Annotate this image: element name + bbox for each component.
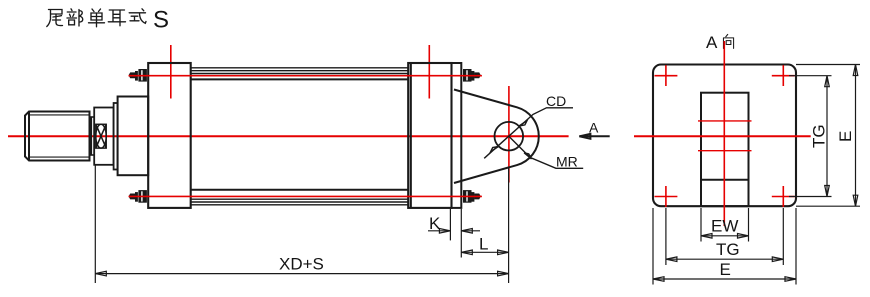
char shi 式 [129,9,146,23]
rod thread minor lines [29,115,90,157]
char wei 尾 [47,10,63,27]
right side extension lines [789,65,860,207]
svg-text:XD+S: XD+S [279,255,324,274]
rod washer [91,117,94,155]
svg-text:S: S [153,7,169,34]
XD+S dimension line [95,271,508,276]
rod extension line [94,165,96,283]
svg-text:L: L [479,235,488,254]
tie rod bottom lines [191,199,409,205]
char er 耳 [108,10,125,26]
K dimension line [428,229,480,234]
tie rod cross bottom-left [655,186,678,207]
svg-text:K: K [429,214,441,233]
right view vertical centerline [723,41,725,226]
E dimension right [853,65,858,207]
E dimension bottom [653,277,796,282]
K dimension extension lines [450,209,461,258]
tie rod axis top [129,75,482,77]
tie rod nut rear bottom [463,190,481,203]
rear cap [408,63,451,208]
tie rod axis bottom [129,195,482,197]
tie rod nut front top [129,69,147,82]
svg-text:EW: EW [711,217,738,236]
gland flange [118,97,149,176]
CD leader with diameter arrows [484,108,573,159]
front cap centerline vertical [170,45,172,99]
title 尾部单耳式 [47,9,146,27]
gland retainer block [94,108,113,165]
char bu 部 [67,9,83,26]
main centerline (piston rod axis) [8,135,569,137]
rod nut with cross [96,124,106,148]
gland ring [114,103,118,170]
clevis lug outline [454,90,539,184]
svg-text:TG: TG [716,240,740,259]
svg-text:E: E [720,260,731,279]
svg-text:A: A [706,33,718,52]
clevis pin centerline vertical [508,86,510,183]
tie rod cross bottom-right [772,186,795,207]
bottom extension lines [653,208,796,285]
tie rod nut front bottom [129,190,147,203]
clevis pin hole CD [495,122,524,151]
tie rod cross top-right [772,65,795,86]
tie rod nut rear top [463,69,481,82]
right view horizontal centerline [634,135,811,137]
tie rod cross top-left [655,65,678,86]
TG dimension bottom [666,257,783,262]
threaded rod end [25,112,90,161]
cylinder tube top edge [191,78,409,80]
EW dimension [701,234,749,239]
L dimension line [461,250,508,255]
rear cap centerline vertical [428,45,430,99]
MR radius leader [509,136,583,168]
tie rod top lines [191,68,409,74]
lug extension line [508,168,510,284]
TG dimension right [825,76,830,197]
svg-text:MR: MR [556,154,578,170]
cylinder tube bottom edge [191,189,409,191]
clevis mounting plate [452,63,462,208]
pin hole edge lines [698,121,752,151]
ear boss rectangle [701,93,749,207]
rear cap square [653,65,796,207]
char dan 单 [89,9,105,27]
svg-text:CD: CD [546,93,566,109]
svg-text:TG: TG [810,124,829,148]
front cap [148,63,191,208]
char xiang 向 [723,34,733,48]
view arrow A [579,134,609,139]
svg-text:E: E [836,131,855,142]
svg-text:A: A [589,120,599,136]
